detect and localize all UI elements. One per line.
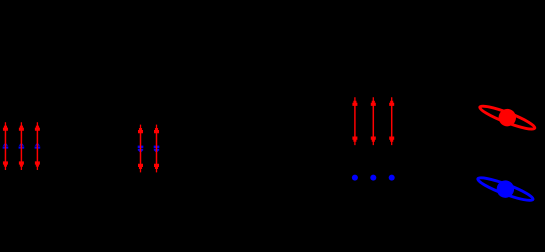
middle beam: arrow 2 [154, 125, 159, 173]
left beam: blue out-of-page symbol 3 [35, 142, 41, 148]
red scattering molecule (atom with orbit ring) [477, 99, 538, 135]
left beam: arrow 2 [19, 122, 24, 170]
left beam: arrow 3 [35, 122, 40, 170]
scattered vertical-polarized beam: arrow 3 [389, 97, 394, 145]
blue scattering molecule (atom with orbit ring) [475, 171, 536, 207]
scattered vertical-polarized beam: arrow 2 [371, 97, 376, 145]
left beam: blue out-of-page symbol 1 [3, 142, 9, 148]
middle beam: blue symbol 1 [138, 146, 144, 153]
middle beam: arrow 1 [138, 125, 143, 173]
scattered beam: blue dot 2 [370, 175, 376, 181]
left beam: unpolarized incident light, arrow 1 [3, 122, 8, 170]
scattered beam: blue dot 1 (E out of page) [352, 175, 358, 181]
middle beam: blue symbol 2 [154, 146, 160, 153]
scattered beam: blue dot 3 [389, 175, 395, 181]
scattered vertical-polarized beam: arrow 1 [352, 97, 357, 145]
left beam: blue out-of-page symbol 2 [19, 142, 25, 148]
